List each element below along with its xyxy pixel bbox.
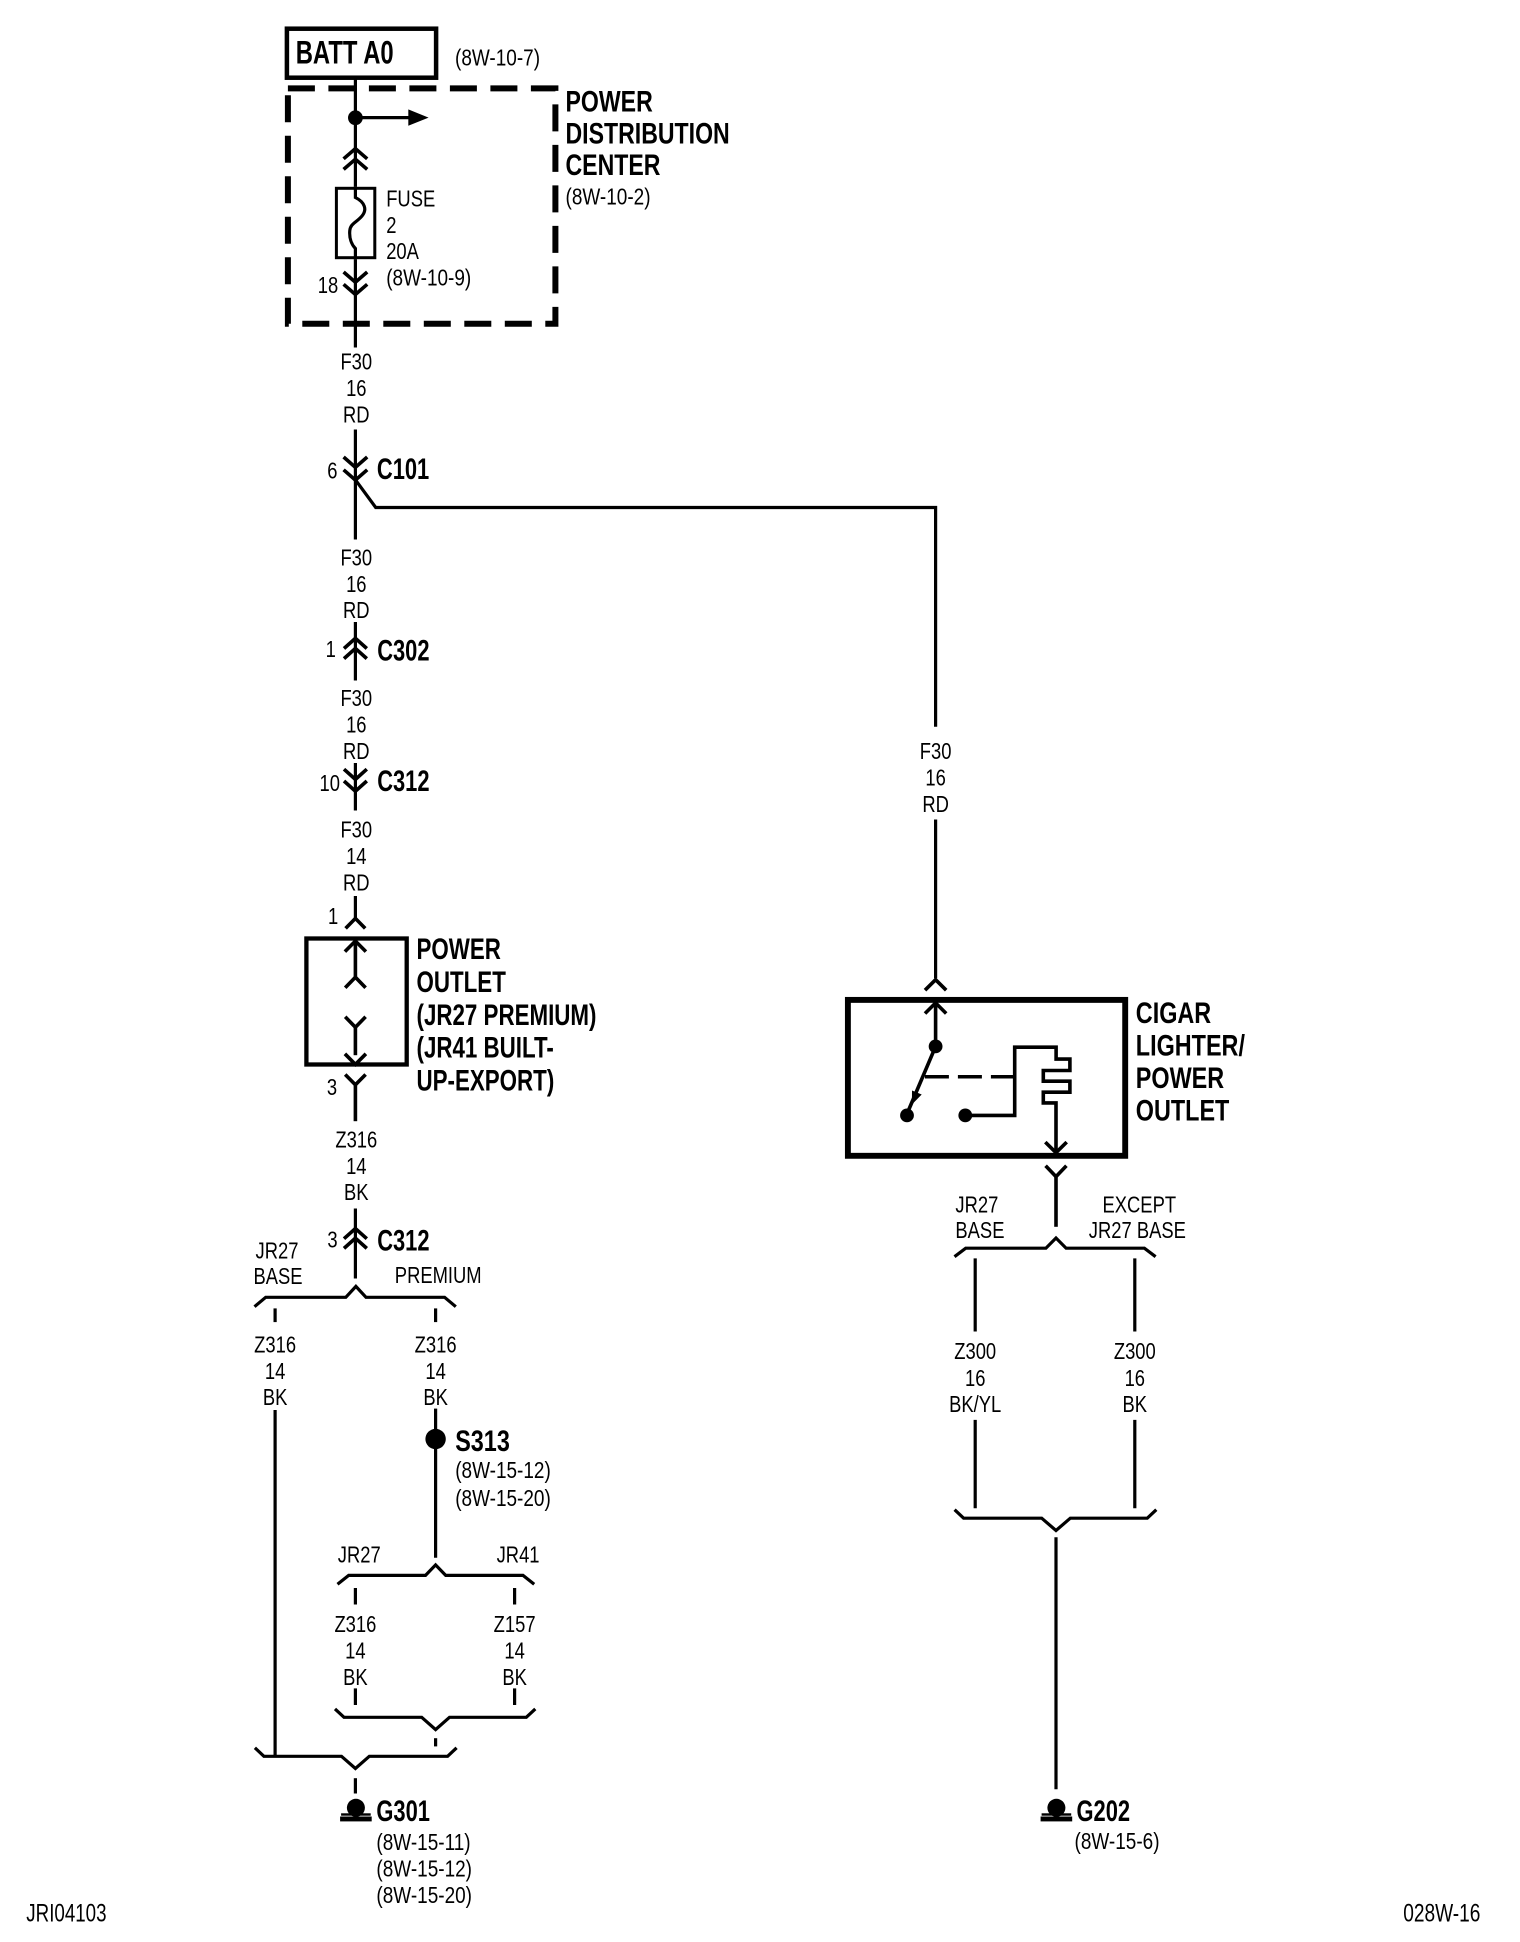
svg-text:POWER: POWER (1136, 1061, 1224, 1094)
svg-text:RD: RD (343, 402, 370, 427)
svg-text:16: 16 (346, 572, 366, 597)
svg-text:16: 16 (346, 376, 366, 401)
svg-text:1: 1 (326, 637, 336, 662)
svg-text:16: 16 (965, 1366, 985, 1391)
svg-text:C312: C312 (377, 764, 429, 798)
svg-text:18: 18 (318, 273, 338, 298)
svg-text:2: 2 (386, 213, 396, 238)
svg-text:EXCEPT: EXCEPT (1103, 1193, 1177, 1218)
svg-text:F30: F30 (340, 818, 372, 843)
svg-text:20A: 20A (386, 239, 419, 264)
svg-text:(8W-15-12): (8W-15-12) (455, 1458, 551, 1483)
svg-text:(8W-15-11): (8W-15-11) (376, 1831, 470, 1856)
svg-text:(8W-15-12): (8W-15-12) (376, 1857, 472, 1882)
svg-text:(8W-15-20): (8W-15-20) (455, 1486, 551, 1511)
svg-text:RD: RD (343, 598, 370, 623)
svg-text:OUTLET: OUTLET (1136, 1094, 1230, 1127)
svg-text:CIGAR: CIGAR (1136, 996, 1211, 1029)
svg-text:BK: BK (502, 1665, 527, 1690)
svg-text:JRI04103: JRI04103 (26, 1899, 106, 1927)
svg-text:1: 1 (328, 904, 338, 929)
svg-text:Z300: Z300 (954, 1339, 996, 1364)
svg-text:Z300: Z300 (1114, 1339, 1156, 1364)
svg-text:C302: C302 (377, 633, 429, 667)
svg-text:BK: BK (343, 1665, 368, 1690)
svg-text:UP-EXPORT): UP-EXPORT) (417, 1063, 555, 1097)
svg-text:LIGHTER/: LIGHTER/ (1136, 1029, 1246, 1062)
svg-text:F30: F30 (920, 739, 952, 764)
svg-text:16: 16 (1125, 1366, 1145, 1391)
svg-text:6: 6 (327, 459, 337, 484)
svg-text:(8W-10-7): (8W-10-7) (455, 46, 540, 71)
svg-text:(8W-10-2): (8W-10-2) (566, 185, 651, 210)
svg-text:BK: BK (344, 1180, 369, 1205)
svg-text:G202: G202 (1077, 1794, 1131, 1828)
svg-text:10: 10 (320, 771, 340, 796)
svg-text:RD: RD (343, 870, 370, 895)
svg-text:(8W-10-9): (8W-10-9) (386, 266, 471, 291)
svg-text:028W-16: 028W-16 (1403, 1899, 1480, 1927)
svg-text:RD: RD (343, 739, 370, 764)
svg-text:(JR41 BUILT-: (JR41 BUILT- (417, 1030, 554, 1064)
svg-text:BK/YL: BK/YL (949, 1392, 1001, 1417)
svg-text:Z316: Z316 (254, 1333, 296, 1358)
svg-text:F30: F30 (340, 546, 372, 571)
svg-text:POWER: POWER (566, 84, 653, 118)
svg-text:(JR27 PREMIUM): (JR27 PREMIUM) (417, 998, 597, 1032)
svg-text:S313: S313 (455, 1424, 510, 1457)
svg-text:F30: F30 (340, 350, 372, 375)
svg-text:Z316: Z316 (415, 1333, 457, 1358)
svg-text:BASE: BASE (955, 1218, 1004, 1243)
svg-text:(8W-15-6): (8W-15-6) (1075, 1829, 1160, 1854)
svg-text:BK: BK (1123, 1392, 1148, 1417)
svg-text:14: 14 (265, 1359, 285, 1384)
svg-text:14: 14 (345, 1639, 365, 1664)
svg-text:JR27: JR27 (256, 1238, 299, 1263)
svg-text:14: 14 (504, 1639, 524, 1664)
svg-text:Z316: Z316 (335, 1128, 377, 1153)
svg-text:Z316: Z316 (334, 1612, 376, 1637)
svg-text:FUSE: FUSE (386, 187, 435, 212)
svg-text:DISTRIBUTION: DISTRIBUTION (566, 116, 730, 150)
svg-text:CENTER: CENTER (566, 148, 661, 182)
svg-text:(8W-15-20): (8W-15-20) (376, 1883, 472, 1908)
svg-text:14: 14 (425, 1359, 445, 1384)
svg-text:14: 14 (346, 1154, 366, 1179)
svg-text:POWER: POWER (417, 932, 501, 966)
svg-text:14: 14 (346, 844, 366, 869)
svg-text:RD: RD (922, 792, 949, 817)
svg-text:BASE: BASE (254, 1264, 303, 1289)
svg-text:3: 3 (327, 1075, 337, 1100)
svg-text:Z157: Z157 (494, 1612, 536, 1637)
svg-text:JR27: JR27 (338, 1543, 381, 1568)
svg-text:JR27 BASE: JR27 BASE (1089, 1218, 1186, 1243)
svg-text:G301: G301 (376, 1794, 430, 1828)
svg-text:F30: F30 (340, 686, 372, 711)
svg-text:BATT A0: BATT A0 (296, 34, 394, 70)
svg-text:OUTLET: OUTLET (417, 965, 506, 999)
svg-text:JR41: JR41 (497, 1543, 540, 1568)
svg-text:C312: C312 (377, 1223, 429, 1257)
svg-text:PREMIUM: PREMIUM (395, 1263, 482, 1288)
svg-text:BK: BK (263, 1385, 288, 1410)
svg-text:16: 16 (925, 766, 945, 791)
svg-text:16: 16 (346, 713, 366, 738)
svg-text:JR27: JR27 (955, 1193, 998, 1218)
svg-text:C101: C101 (377, 451, 429, 485)
svg-text:BK: BK (423, 1385, 448, 1410)
svg-text:3: 3 (327, 1228, 337, 1253)
